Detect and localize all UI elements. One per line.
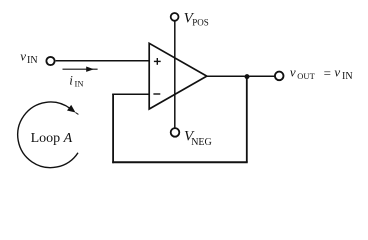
node VPOS terminal bbox=[171, 13, 179, 21]
op-amp U1 bbox=[149, 43, 207, 109]
current arrow iIN bbox=[63, 67, 98, 72]
wire input to noninverting input bbox=[56, 60, 150, 62]
svg-text:POS: POS bbox=[192, 18, 209, 28]
svg-text:IN: IN bbox=[342, 71, 353, 82]
svg-text:IN: IN bbox=[75, 78, 84, 88]
svg-text:Loop A: Loop A bbox=[31, 131, 73, 146]
svg-text:NEG: NEG bbox=[191, 137, 212, 148]
wire output bbox=[207, 75, 275, 77]
node vOUT output terminal bbox=[275, 72, 284, 81]
svg-text:v: v bbox=[20, 48, 26, 63]
svg-text:i: i bbox=[69, 72, 73, 87]
label vOUT = vIN bbox=[290, 64, 353, 81]
svg-text:v: v bbox=[334, 64, 340, 79]
wire feedback to inverting input bbox=[112, 93, 149, 95]
node vIN input terminal bbox=[46, 57, 54, 65]
wire power rail VPOS to VNEG through op-amp bbox=[174, 21, 176, 128]
wire feedback bottom horizontal bbox=[112, 161, 248, 163]
op-amp plus pin marking bbox=[154, 58, 161, 65]
svg-text:OUT: OUT bbox=[297, 71, 315, 81]
node VNEG terminal bbox=[171, 128, 180, 137]
svg-text:=: = bbox=[324, 65, 331, 80]
wire feedback left vertical bbox=[112, 94, 114, 163]
svg-text:v: v bbox=[290, 64, 296, 79]
loop arrowhead bbox=[67, 105, 78, 115]
loop arrow arc bbox=[18, 102, 78, 168]
junction output node bbox=[245, 74, 250, 79]
op-amp minus pin marking bbox=[153, 93, 160, 95]
svg-text:IN: IN bbox=[27, 55, 38, 66]
wire feedback right vertical bbox=[246, 77, 248, 163]
